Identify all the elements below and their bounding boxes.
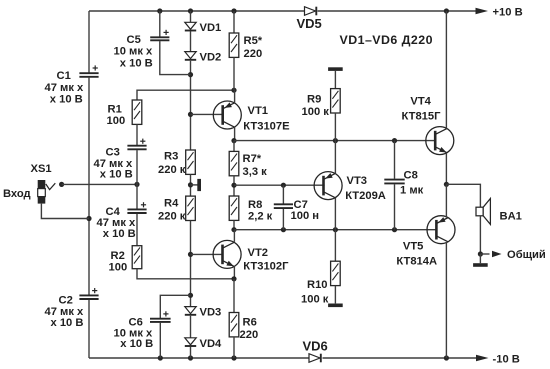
svg-text:220: 220 <box>240 329 259 341</box>
resistor R7 <box>229 151 267 178</box>
wire R2 bottom to VT2 emitter node <box>137 269 234 279</box>
svg-text:x 10 В: x 10 В <box>103 228 136 240</box>
wire VT5 base row <box>234 229 437 231</box>
wire common tap to R9 <box>334 71 336 89</box>
svg-text:x 10 В: x 10 В <box>120 58 153 70</box>
svg-text:КТ209А: КТ209А <box>345 190 386 202</box>
svg-text:1 мк: 1 мк <box>400 185 424 197</box>
junction dot left rail / XS1 sleeve <box>86 216 91 221</box>
svg-text:2,2 к: 2,2 к <box>248 211 273 223</box>
wire VT5 collector to bottom rail <box>445 242 447 358</box>
wire speaker to common node <box>479 216 481 254</box>
wire VT1 base <box>191 113 223 115</box>
diode VD2 <box>185 52 221 64</box>
svg-text:100 н: 100 н <box>291 210 320 222</box>
svg-text:R10: R10 <box>307 279 328 291</box>
wire top rail right segment (VD5 to +10V arrow) <box>318 10 477 12</box>
wire R10 to ground bar <box>334 286 336 304</box>
resistor R8 <box>229 196 272 223</box>
svg-text:C2: C2 <box>59 295 73 307</box>
svg-text:x 10 В: x 10 В <box>51 317 84 329</box>
wire left rail middle (C1 to C2) <box>88 78 90 295</box>
svg-text:VT4: VT4 <box>410 95 431 107</box>
diode VD1 <box>185 22 221 34</box>
svg-text:R7*: R7* <box>243 153 262 165</box>
wire XS1 sleeve to left rail <box>41 204 89 219</box>
wire VT2 base <box>191 253 223 255</box>
junction dot bottom rail / C6 <box>158 355 163 360</box>
junction dot VD2-C5 node <box>188 72 193 77</box>
svg-text:3,3 к: 3,3 к <box>243 166 268 178</box>
wire left rail upper (top rail to C1) <box>88 11 90 73</box>
svg-text:-10 В: -10 В <box>493 354 520 366</box>
wire C6 link from VD3 node <box>160 295 190 318</box>
wire top rail left segment (+ rail from left corner to VD5) <box>89 10 304 12</box>
svg-text:C8: C8 <box>404 170 418 182</box>
wire output node to speaker <box>446 184 480 207</box>
ground bar below R10 <box>328 304 343 308</box>
wire C8 from collector row <box>394 141 396 179</box>
junction dot output node <box>444 182 449 187</box>
wire left rail lower (C2 to bottom rail) <box>88 300 90 358</box>
svg-text:100 к: 100 к <box>302 106 330 118</box>
wire VT4 collector to top rail <box>445 11 447 128</box>
wire C3 to C4 (input node) <box>136 150 138 209</box>
capacitor C8 <box>384 170 423 197</box>
junction dot input / C3-C4 column <box>134 182 139 187</box>
speaker BA1 <box>476 199 522 225</box>
svg-text:XS1: XS1 <box>31 163 52 175</box>
wire R9 to collector row <box>334 113 336 141</box>
ground bar below common node <box>473 254 488 267</box>
wire VD2 to R3 (through C5 tap and VT1 base tap) <box>190 61 192 150</box>
wire node to R7 <box>233 141 235 152</box>
junction dot VT3 base row / C7 <box>281 183 286 188</box>
wire C4 to R2 <box>136 214 138 246</box>
svg-text:C5: C5 <box>127 34 141 46</box>
wire VT5 base row node to R10 <box>334 230 336 262</box>
svg-text:R2: R2 <box>111 250 125 262</box>
junction dot VT5 base row / VT3 collector-R10 <box>333 227 338 232</box>
junction dot R7-R8 / VT3 base row <box>231 183 236 188</box>
junction dot bottom rail / VD4 <box>188 355 193 360</box>
svg-text:R6: R6 <box>243 317 257 329</box>
svg-text:КТ3107Е: КТ3107Е <box>243 120 290 132</box>
wire VD3 to VD4 <box>190 316 192 338</box>
wire VT3 base row <box>234 184 325 186</box>
svg-text:220 к: 220 к <box>158 210 186 222</box>
svg-text:R5*: R5* <box>244 35 263 47</box>
junction dot R8-VT2 collector / VT5 base row <box>231 227 236 232</box>
svg-text:+10 В: +10 В <box>493 7 523 19</box>
svg-text:R8: R8 <box>248 199 262 211</box>
svg-text:100: 100 <box>107 115 126 127</box>
junction dot VT5 base row / C8 <box>392 227 397 232</box>
svg-text:x 10 В: x 10 В <box>100 169 133 181</box>
svg-text:R3: R3 <box>164 151 178 163</box>
svg-text:VT2: VT2 <box>248 247 269 259</box>
transistor VT5 (PNP) <box>396 216 455 268</box>
resistor R3 <box>158 150 195 176</box>
capacitor C5 <box>114 30 170 70</box>
svg-text:C3: C3 <box>106 147 120 159</box>
capacitor C7 <box>274 185 319 230</box>
transistor VT2 (NPN) <box>213 240 289 272</box>
wire VT1 collector to collector row <box>234 127 236 140</box>
svg-text:КТ3102Г: КТ3102Г <box>243 261 289 273</box>
junction dot top rail / C5 <box>157 8 162 13</box>
connector XS1 (input jack) <box>3 163 55 204</box>
wire VT2 collector to VT5 base row <box>233 230 235 242</box>
svg-text:x 10 В: x 10 В <box>50 94 83 106</box>
resistor R6 <box>229 313 258 342</box>
wire C8 to VT5 base row <box>394 184 396 230</box>
junction dot common node <box>478 251 483 256</box>
svg-text:VD6: VD6 <box>303 339 328 354</box>
svg-text:R1: R1 <box>108 104 122 116</box>
svg-text:BA1: BA1 <box>500 211 522 223</box>
junction dot bottom rail / R6 <box>231 355 236 360</box>
wire R1 to C3 <box>136 124 138 145</box>
resistor R1 <box>107 100 142 127</box>
junction dot top rail / VD1 <box>188 8 193 13</box>
capacitor C1 <box>45 65 99 105</box>
junction dot collector row / R9-VT3 column <box>333 138 338 143</box>
svg-text:VD3: VD3 <box>200 307 222 319</box>
wire VT1 emitter to node <box>234 90 236 103</box>
wire VD1 to VD2 <box>190 32 192 52</box>
svg-text:VT5: VT5 <box>403 241 424 253</box>
diode VD3 <box>185 307 221 319</box>
wire C5 bottom to VD2-R3 node <box>160 41 191 75</box>
wire VT2 emitter down <box>233 267 235 279</box>
wire VT1 collector row to VT4 base <box>234 140 435 142</box>
+10V power arrow <box>476 7 523 19</box>
svg-text:Вход: Вход <box>3 188 31 200</box>
svg-text:VT1: VT1 <box>248 105 269 117</box>
junction dot VT2 base node <box>188 252 193 257</box>
svg-text:100 к: 100 к <box>301 294 329 306</box>
svg-text:C1: C1 <box>57 70 71 82</box>
capacitor C2 <box>45 288 99 329</box>
wire R1 top to VT1 emitter row <box>137 90 234 100</box>
wire R8 to VT5 base row <box>233 220 235 229</box>
resistor R2 <box>109 246 142 274</box>
wire R4 to VD3 node (VT2 base tap, C6 tap) <box>190 221 192 307</box>
wire VD1 column top <box>190 11 192 22</box>
wire R7 to VT3 base row <box>233 176 235 196</box>
wire VT4 emitter to output node <box>445 153 447 185</box>
svg-text:47 мк x: 47 мк x <box>45 82 85 94</box>
resistor R4 <box>158 196 195 222</box>
resistor R10 <box>301 261 340 305</box>
svg-text:x 10 В: x 10 В <box>120 338 153 350</box>
capacitor C3 <box>94 139 147 181</box>
terminal bar above R9 (common tap) <box>328 67 343 71</box>
wire VT5 emitter to output node <box>445 184 447 217</box>
junction dot collector row / C8 <box>392 138 397 143</box>
wire R5 from top rail <box>233 11 235 33</box>
junction dot VT1 collector node <box>231 138 236 143</box>
svg-text:VD1: VD1 <box>200 22 222 34</box>
svg-text:VD1–VD6 Д220: VD1–VD6 Д220 <box>340 33 433 47</box>
svg-text:VD2: VD2 <box>200 52 222 64</box>
wire VD4 to bottom rail <box>190 347 192 358</box>
wire R3 to R4 <box>190 174 192 196</box>
wire bottom rail left segment (left corner to VD6) <box>89 357 309 359</box>
junction dot VT1 base node <box>188 112 193 117</box>
wire C6 to bottom rail <box>159 323 161 358</box>
resistor R9 <box>302 89 341 118</box>
junction dot bottom rail / VT5 collector <box>444 355 449 360</box>
junction dot VT5 base row / C7 <box>281 227 286 232</box>
svg-text:VD4: VD4 <box>200 338 223 350</box>
diode VD6 <box>303 339 328 363</box>
svg-text:100: 100 <box>109 262 128 274</box>
svg-text:220: 220 <box>244 48 263 60</box>
junction dot top rail / R5 <box>231 8 236 13</box>
wire R5 to VT1 emitter node <box>233 57 235 90</box>
svg-text:R9: R9 <box>307 94 321 106</box>
wire R6 to bottom rail <box>233 337 235 358</box>
junction dot R3-R4 divider node <box>188 182 193 187</box>
wire C5 column and link to VD2 node <box>159 11 161 37</box>
common (Общий) terminal arrow <box>480 249 546 261</box>
junction dot VT2 emitter / R2 node <box>231 276 236 281</box>
wire bottom rail right segment (VD6 to -10V arrow) <box>323 357 478 359</box>
wire input tip to C3/C4 node <box>62 183 137 185</box>
svg-text:Общий: Общий <box>507 249 546 261</box>
wire collector row to VT3 emitter <box>334 141 336 174</box>
junction dot input tip terminal <box>59 182 64 187</box>
diode VD5 <box>297 7 322 31</box>
svg-text:10 мк x: 10 мк x <box>114 46 154 58</box>
capacitor C6 <box>114 311 171 350</box>
transistor VT3 (PNP) <box>314 172 386 203</box>
transistor VT1 (PNP) <box>213 101 290 132</box>
resistor R5 <box>229 33 263 60</box>
junction dot top rail / VT4 collector <box>444 8 449 13</box>
svg-text:КТ814А: КТ814А <box>396 255 437 267</box>
svg-text:КТ815Г: КТ815Г <box>402 110 442 122</box>
junction dot C6 node <box>188 293 193 298</box>
wire VT2 emitter node to R6 <box>233 279 235 313</box>
capacitor C4 <box>97 202 147 240</box>
svg-text:R4: R4 <box>164 198 179 210</box>
diode VD4 <box>185 338 222 350</box>
svg-text:VD5: VD5 <box>297 16 322 31</box>
transistor VT4 (NPN) <box>402 95 454 154</box>
tap stub and terminal bar at R3-R4 node <box>191 179 202 191</box>
junction dot VT1 emitter / R5 node <box>231 88 236 93</box>
svg-text:220 к: 220 к <box>158 164 186 176</box>
wire VT3 collector to VT5 base row <box>334 198 336 230</box>
-10V power arrow <box>476 354 520 366</box>
svg-text:VT3: VT3 <box>347 175 368 187</box>
